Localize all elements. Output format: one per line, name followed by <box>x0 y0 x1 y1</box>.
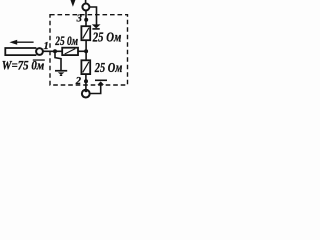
resistor R2 25 Ом (horizontal) <box>62 48 78 55</box>
node B junction dot <box>53 49 57 53</box>
terminal 2 circle <box>82 90 90 98</box>
wire terminal1 to R2h <box>43 50 62 52</box>
terminal 1 circle <box>36 48 43 55</box>
node 3 junction dot <box>84 18 88 22</box>
wire R3 bottom to terminal 2 <box>85 74 87 90</box>
terminal 2 inner dot <box>84 89 87 92</box>
wire node B down to ground <box>55 51 61 70</box>
node 2 junction dot <box>84 79 88 83</box>
svg-text:25 0м: 25 0м <box>55 34 79 48</box>
svg-text:25 Ом: 25 Ом <box>94 61 123 76</box>
svg-text:1: 1 <box>44 41 49 52</box>
incoming wave arrowhead <box>71 0 76 7</box>
feeder transmission line W=75 Ом <box>5 48 36 55</box>
chassis arrow bottom (to screen) <box>95 80 107 85</box>
chassis arrow top right <box>92 24 101 29</box>
wire terminal2 to shield <box>89 85 100 94</box>
node A junction dot <box>84 49 88 53</box>
svg-text:2: 2 <box>75 76 82 87</box>
left feed arrow to transmitter <box>9 40 33 45</box>
resistor R1 25 Ом (vertical) <box>81 26 90 40</box>
terminal 3 circle <box>82 4 89 11</box>
svg-text:25 Ом: 25 Ом <box>92 31 122 46</box>
overbar on Ом <box>33 59 45 60</box>
dashed screen box <box>50 15 128 85</box>
resistor R3 25 Ом (vertical lower) <box>81 60 90 74</box>
wire R2h right to node A <box>78 50 87 52</box>
svg-text:3: 3 <box>76 14 82 25</box>
wire R1 bottom to node A <box>85 40 87 60</box>
wire terminal3 down to R1 <box>85 10 87 26</box>
wire terminal3 to right corner <box>89 7 96 25</box>
stub above terminal 3 <box>85 0 87 4</box>
ground symbol bottom left <box>55 70 67 76</box>
